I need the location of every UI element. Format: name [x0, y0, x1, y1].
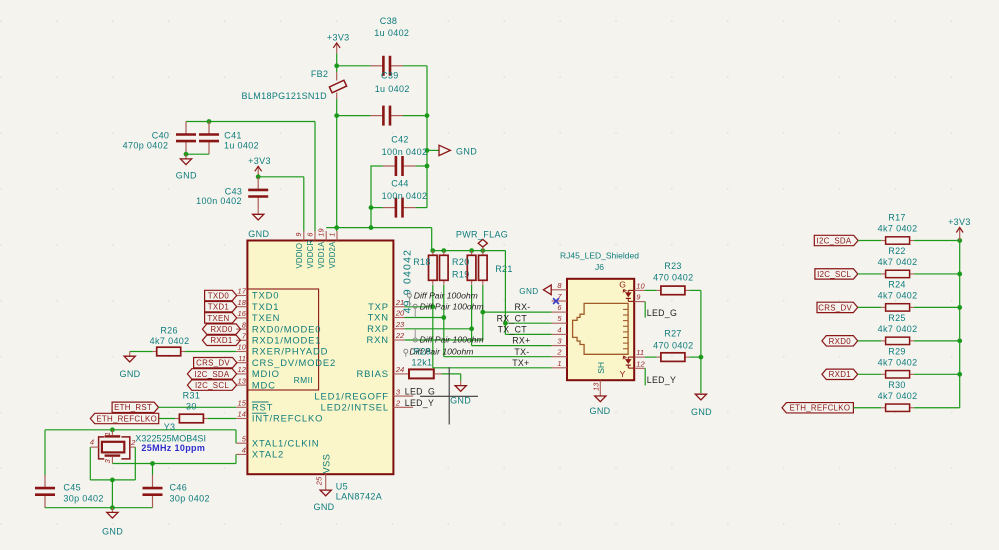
junction — [957, 238, 962, 243]
pin 12 J6 — [634, 359, 645, 368]
svg-text:R24: R24 — [888, 279, 906, 289]
pin 22 RXN — [367, 331, 406, 345]
svg-text:TXP: TXP — [368, 301, 389, 312]
pin 7 RXD1/MODE1 — [236, 332, 321, 346]
wire +3V3 rail (right) — [959, 241, 961, 408]
svg-text:MDC: MDC — [252, 379, 276, 390]
junction — [184, 152, 189, 157]
svg-text:CRS_DV/MODE2: CRS_DV/MODE2 — [252, 357, 336, 368]
svg-text:R31: R31 — [183, 391, 201, 401]
wire I2C_SCL to R22 — [858, 273, 882, 275]
svg-text:4k7 0402: 4k7 0402 — [878, 357, 918, 367]
svg-text:100n 0402: 100n 0402 — [196, 196, 242, 206]
wire TXN to TX- — [405, 285, 552, 357]
pin 2 LED2/INTSEL — [321, 399, 413, 413]
junction — [150, 461, 155, 466]
svg-text:R21: R21 — [495, 264, 513, 274]
wire C42/C44 left vertical — [370, 165, 372, 227]
svg-text:RXP: RXP — [367, 323, 389, 334]
svg-text:I2C_SDA: I2C_SDA — [195, 370, 230, 379]
resistor R22 — [878, 246, 918, 278]
svg-text:30: 30 — [186, 402, 197, 412]
svg-text:1: 1 — [327, 233, 336, 237]
wire pin 9 LED_G — [644, 302, 646, 318]
netclass Diff Pair 100ohm (3) — [413, 329, 483, 345]
svg-text:30p 0402: 30p 0402 — [63, 493, 103, 503]
svg-text:CRS_DV: CRS_DV — [196, 359, 230, 368]
svg-text:11: 11 — [238, 354, 246, 363]
capacitor C45 — [35, 430, 104, 508]
label I2C_SCL — [187, 380, 236, 390]
svg-text:FB2: FB2 — [311, 69, 329, 79]
svg-text:VSS: VSS — [320, 454, 331, 474]
LED yellow indicator — [623, 356, 634, 368]
U5 reference and value — [336, 481, 382, 501]
junction — [334, 63, 339, 68]
svg-text:VDDIO: VDDIO — [295, 243, 304, 269]
wire C41 bottom to C40 bottom — [186, 153, 209, 155]
capacitor C42 — [371, 135, 427, 177]
svg-text:19: 19 — [317, 228, 326, 237]
wire termination rail — [432, 250, 506, 252]
svg-text:GND: GND — [102, 527, 123, 537]
pin 5 XTAL1/CLKIN — [236, 434, 319, 448]
junction — [441, 315, 446, 320]
wire R27 to ground rail — [689, 356, 701, 358]
connector J6 RJ45_LED_Shielded body — [567, 279, 634, 380]
label I2C_SDA — [187, 369, 236, 379]
svg-text:I2C_SCL: I2C_SCL — [195, 381, 229, 390]
svg-text:RX+: RX+ — [512, 336, 530, 346]
svg-text:GND: GND — [248, 229, 269, 239]
svg-text:C42: C42 — [391, 135, 409, 145]
pin 4 J6 — [552, 325, 567, 334]
junction — [957, 338, 962, 343]
svg-text:1u 0402: 1u 0402 — [375, 84, 410, 94]
svg-text:16: 16 — [238, 309, 247, 318]
junction — [110, 427, 115, 432]
label I2C_SCL (pull-up row) — [815, 269, 858, 279]
svg-text:LED1/REGOFF: LED1/REGOFF — [314, 390, 388, 401]
wire I2C_SDA to R17 — [858, 240, 881, 242]
svg-text:4k7 0402: 4k7 0402 — [878, 257, 918, 267]
svg-text:I2C_SCL: I2C_SCL — [817, 270, 851, 279]
op-amp U5 LAN8742A body — [247, 241, 393, 475]
label TX+ — [512, 358, 529, 368]
J6 reference and value — [560, 251, 639, 272]
netclass Diff Pair 100ohm (2) — [413, 302, 483, 318]
label LED_Y (J6) — [647, 375, 676, 385]
svg-text:R28: R28 — [414, 346, 432, 356]
svg-text:R22: R22 — [888, 246, 906, 256]
svg-text:18: 18 — [238, 298, 247, 307]
svg-text:25MHz 10ppm: 25MHz 10ppm — [141, 443, 205, 453]
pin 7 J6 — [552, 292, 567, 301]
wire ground rail — [45, 507, 153, 509]
svg-text:23: 23 — [395, 320, 405, 329]
svg-text:+3V3: +3V3 — [248, 156, 271, 166]
wire R17 to +3V3 rail — [914, 240, 960, 242]
junction — [334, 113, 339, 118]
svg-text:LED_Y: LED_Y — [647, 375, 676, 385]
svg-text:C41: C41 — [224, 130, 242, 140]
svg-text:12k1: 12k1 — [412, 357, 433, 367]
svg-text:RXD0/MODE0: RXD0/MODE0 — [252, 323, 321, 334]
wire R30 to +3V3 rail — [914, 407, 960, 409]
svg-text:470 0402: 470 0402 — [653, 341, 693, 351]
resistor R27 — [653, 329, 693, 362]
wire R22 to +3V3 rail — [914, 273, 960, 275]
pin 8 J6 — [552, 281, 567, 290]
wire ETH_RST to pin 15 — [159, 406, 237, 408]
svg-text:GND: GND — [313, 502, 334, 512]
pin 13 J6 (shield) — [592, 380, 601, 391]
wire RXP to RX+ — [405, 285, 552, 346]
svg-text:2: 2 — [556, 348, 562, 357]
svg-text:15: 15 — [238, 399, 247, 408]
netclass Diff Pair 100ohm (4) — [404, 346, 474, 356]
resistor R18 — [413, 251, 437, 285]
power +3V3 (top) — [327, 33, 350, 54]
svg-text:24: 24 — [395, 365, 404, 374]
wire VDD rail — [326, 227, 432, 229]
junction — [110, 505, 115, 510]
resistor R21 — [479, 251, 513, 285]
wire down to pin 9 — [303, 177, 305, 231]
svg-text:LAN8742A: LAN8742A — [336, 491, 382, 501]
pin 25 VSS — [315, 454, 332, 486]
svg-text:GND: GND — [691, 407, 712, 417]
capacitor C43 — [196, 177, 268, 210]
svg-text:GND: GND — [456, 146, 477, 156]
crystal Y3 — [90, 422, 206, 463]
junction — [110, 478, 115, 483]
svg-text:RXD1: RXD1 — [210, 336, 232, 345]
no-connect pin 7 — [553, 298, 559, 304]
svg-text:RXN: RXN — [367, 334, 389, 345]
svg-text:GND: GND — [119, 369, 140, 379]
pin 17 TXD0 — [236, 287, 279, 301]
resistor R25 — [878, 313, 918, 345]
capacitor C46 — [143, 464, 210, 508]
junction — [469, 248, 474, 253]
svg-text:TXN: TXN — [368, 312, 389, 323]
capacitor C44 — [371, 178, 427, 217]
wire to C38 — [337, 65, 371, 67]
svg-text:+3V3: +3V3 — [948, 217, 971, 227]
svg-text:TXD0: TXD0 — [208, 291, 230, 300]
wire ETH_REFCLKO to R30 — [853, 407, 881, 409]
pin 9 J6 — [634, 293, 645, 302]
svg-text:MDIO: MDIO — [252, 368, 280, 379]
label CRS_DV — [194, 358, 237, 368]
ground at R23/R27 — [691, 394, 712, 417]
svg-text:SH: SH — [596, 362, 606, 374]
label LED_G (J6) — [647, 308, 677, 318]
svg-text:R29: R29 — [888, 346, 906, 356]
label TXD0 — [205, 290, 237, 300]
netclass Diff Pair 100ohm (1) — [407, 291, 477, 307]
svg-text:R30: R30 — [888, 380, 906, 390]
ground at crystal — [102, 508, 123, 537]
svg-text:C39: C39 — [381, 70, 399, 80]
svg-text:4k7 0402: 4k7 0402 — [150, 336, 190, 346]
resistor R17 — [878, 213, 918, 245]
label ETH_RST — [112, 402, 158, 412]
svg-text:12: 12 — [636, 359, 645, 368]
wire XTAL2 bottom — [112, 463, 236, 465]
pin 23 RXP — [367, 320, 405, 334]
svg-text:TXD1: TXD1 — [208, 303, 229, 312]
wire pin 11 to R27 — [645, 356, 657, 358]
pin 21 TXP — [368, 298, 404, 312]
pin 5 J6 — [552, 314, 567, 323]
wire R29 to +3V3 rail — [914, 373, 960, 375]
svg-text:LED2/INTSEL: LED2/INTSEL — [321, 402, 389, 413]
value 49.9 0402 (rotated) — [402, 249, 414, 314]
pin 6 J6 — [552, 303, 567, 312]
junction — [256, 174, 261, 179]
pin 24 RBIAS — [357, 365, 405, 379]
svg-text:J6: J6 — [595, 262, 604, 272]
junction — [957, 305, 962, 310]
pin 3 LED1/REGOFF — [314, 387, 413, 401]
svg-text:TX_CT: TX_CT — [498, 325, 528, 335]
svg-text:R17: R17 — [888, 213, 906, 223]
pin 19 VDD1A — [317, 228, 327, 269]
svg-text:1: 1 — [557, 359, 561, 368]
svg-text:13: 13 — [592, 382, 601, 391]
junction — [430, 248, 435, 253]
svg-text:1u 0402: 1u 0402 — [224, 140, 259, 150]
svg-text:XTAL1/CLKIN: XTAL1/CLKIN — [252, 437, 320, 448]
resistor R20 — [452, 251, 476, 285]
svg-text:C45: C45 — [63, 482, 81, 492]
svg-text:RXD1/MODE1: RXD1/MODE1 — [252, 335, 321, 346]
wire case ground to rail — [111, 480, 113, 508]
svg-text:ETH_RST: ETH_RST — [114, 403, 152, 412]
pin 1 J6 — [552, 359, 567, 368]
svg-text:10: 10 — [636, 281, 645, 290]
label ETH_REFCLKO — [90, 413, 158, 423]
junction — [425, 148, 430, 153]
svg-text:LED_G: LED_G — [405, 387, 435, 397]
capacitor C38 — [370, 16, 409, 76]
svg-text:C43: C43 — [225, 186, 243, 196]
resistor R28 — [405, 346, 442, 378]
svg-text:R25: R25 — [888, 313, 906, 323]
svg-text:R18: R18 — [413, 257, 431, 267]
resistor R23 — [653, 261, 693, 295]
svg-text:22: 22 — [395, 331, 405, 340]
svg-text:VDDCR: VDDCR — [306, 240, 315, 269]
svg-text:Diff Pair 100ohm: Diff Pair 100ohm — [420, 302, 484, 312]
svg-text:1: 1 — [103, 432, 112, 436]
svg-text:RX-: RX- — [514, 302, 530, 312]
svg-text:VDD2A: VDD2A — [328, 241, 337, 269]
svg-text:TXEN: TXEN — [252, 312, 280, 323]
junction — [425, 113, 430, 118]
pin 11 J6 — [634, 348, 645, 357]
wire +3V3 to pin 9 — [258, 176, 304, 178]
capacitor C40 — [123, 121, 196, 154]
svg-text:R26: R26 — [160, 325, 178, 335]
label CRS_DV (pull-up row) — [817, 302, 858, 312]
svg-text:4: 4 — [242, 446, 246, 455]
LED green indicator — [623, 290, 634, 302]
wire crystal case ground U — [90, 447, 135, 480]
label LED_G — [405, 387, 435, 397]
label RX_CT — [497, 313, 528, 323]
svg-text:14: 14 — [238, 410, 246, 419]
svg-text:10: 10 — [238, 343, 247, 352]
svg-text:TX-: TX- — [514, 347, 529, 357]
svg-text:49.9 04042: 49.9 04042 — [402, 249, 414, 314]
svg-text:R27: R27 — [664, 329, 682, 339]
power flag PWR_FLAG — [456, 230, 508, 251]
wire XTAL1 to pin 5 — [235, 430, 237, 443]
label RX+ — [512, 336, 530, 346]
svg-text:GND: GND — [176, 171, 197, 181]
svg-text:4: 4 — [90, 437, 94, 446]
resistor R19 — [440, 251, 470, 285]
svg-text:I2C_SDA: I2C_SDA — [817, 236, 852, 245]
svg-text:100n 0402: 100n 0402 — [382, 191, 428, 201]
svg-text:VDD1A: VDD1A — [317, 241, 326, 269]
svg-text:RXER/PHYADD: RXER/PHYADD — [252, 346, 328, 357]
svg-text:25: 25 — [315, 476, 324, 486]
label TXEN — [205, 313, 237, 323]
svg-text:PWR_FLAG: PWR_FLAG — [456, 230, 508, 240]
junction — [334, 225, 339, 230]
svg-text:C38: C38 — [380, 16, 398, 26]
junction — [480, 248, 485, 253]
label RXD1 (pull-up row) — [822, 369, 858, 379]
pin 11 CRS_DV/MODE2 — [236, 354, 336, 368]
pin 13 MDC — [236, 376, 276, 390]
svg-text:GND: GND — [519, 287, 538, 296]
svg-text:ETH_REFCLKO: ETH_REFCLKO — [96, 414, 157, 423]
svg-text:17: 17 — [238, 287, 247, 296]
pin 8 RXD0/MODE0 — [236, 320, 321, 334]
svg-text:RST: RST — [252, 402, 273, 413]
ground for C43 — [248, 210, 269, 239]
label TXD1 — [205, 302, 237, 312]
svg-text:G: G — [619, 279, 626, 289]
junction — [369, 225, 374, 230]
svg-text:LED_G: LED_G — [647, 308, 677, 318]
svg-text:TX+: TX+ — [512, 358, 529, 368]
ground at R26 — [119, 352, 140, 379]
wire to C39 — [337, 115, 371, 117]
wire GND vertical (C38/C39/C42/C44 right) — [426, 66, 428, 208]
wire +3V3 to FB2 — [336, 53, 338, 65]
svg-text:C40: C40 — [152, 130, 170, 140]
resistor R29 — [878, 346, 918, 378]
pin 15 RST — [236, 399, 273, 413]
junction — [430, 304, 435, 309]
pin 12 MDIO — [236, 365, 280, 379]
pin 10 J6 — [634, 281, 645, 290]
svg-text:4k7 0402: 4k7 0402 — [878, 224, 918, 234]
junction — [207, 119, 212, 124]
junction — [957, 272, 962, 277]
svg-text:Diff Pair 100ohm: Diff Pair 100ohm — [420, 334, 484, 344]
wire VDDCR rail — [186, 121, 315, 123]
label RXD0 — [202, 324, 240, 334]
svg-text:TXEN: TXEN — [207, 314, 229, 323]
wire XTAL1 top — [45, 429, 236, 431]
label I2C_SDA (pull-up row) — [814, 235, 858, 245]
junction — [503, 321, 508, 326]
junction — [369, 205, 374, 210]
wire R24 to +3V3 rail — [914, 306, 960, 308]
pin 14 INT/REFCLKO — [236, 410, 323, 424]
svg-text:4k7 0402: 4k7 0402 — [878, 324, 918, 334]
svg-text:TXD1: TXD1 — [252, 301, 279, 312]
label LED_Y — [405, 398, 434, 408]
wire RXD0 to R25 — [858, 340, 882, 342]
wire C39 right — [403, 115, 427, 117]
svg-text:+3V3: +3V3 — [327, 33, 350, 43]
svg-text:100n 0402: 100n 0402 — [382, 147, 428, 157]
svg-text:Diff Pair 100ohm: Diff Pair 100ohm — [414, 291, 478, 301]
svg-text:INT/REFCLKO: INT/REFCLKO — [252, 413, 323, 424]
svg-text:X322525MOB4SI: X322525MOB4SI — [135, 433, 206, 443]
svg-text:CRS_DV: CRS_DV — [818, 303, 852, 312]
ferrite bead FB2 — [242, 66, 347, 116]
svg-text:ETH_REFCLKO: ETH_REFCLKO — [790, 404, 851, 413]
wire VDD to termination rail — [431, 228, 433, 251]
svg-text:XTAL2: XTAL2 — [252, 449, 284, 460]
junction — [699, 355, 704, 360]
label TX_CT — [498, 325, 528, 335]
resistor R30 — [878, 380, 918, 412]
svg-text:GND: GND — [450, 396, 471, 406]
ground label at pin 8 — [519, 285, 551, 296]
J6 marks G Y SH — [596, 279, 626, 379]
junction — [480, 310, 485, 315]
svg-text:BLM18PG121SN1D: BLM18PG121SN1D — [242, 91, 328, 101]
ground at VSS — [313, 485, 334, 511]
svg-text:1u 0402: 1u 0402 — [374, 28, 409, 38]
pin 18 TXD1 — [236, 298, 279, 312]
power +3V3 (VDDIO) — [248, 156, 271, 177]
pin 3 J6 — [552, 337, 567, 346]
label TX- — [514, 347, 529, 357]
svg-text:GND: GND — [589, 406, 610, 416]
svg-text:11: 11 — [636, 348, 644, 357]
capacitor C39 — [370, 70, 409, 125]
wire RBIAS to ground — [442, 374, 461, 381]
svg-text:470 0402: 470 0402 — [653, 273, 693, 283]
ground label (mid) — [427, 145, 477, 156]
svg-text:RXD0: RXD0 — [829, 337, 852, 346]
pin 6 VDDCR — [305, 231, 315, 269]
svg-text:RMII: RMII — [294, 375, 313, 385]
junction — [469, 326, 474, 331]
junction — [957, 372, 962, 377]
wire VDDCR drop to pin 6 — [314, 122, 316, 232]
svg-text:RXD0: RXD0 — [210, 325, 233, 334]
svg-text:C44: C44 — [391, 178, 409, 188]
wire center tap rail — [505, 251, 551, 335]
svg-text:LED_Y: LED_Y — [405, 398, 434, 408]
junction — [441, 248, 446, 253]
ground at pin 13 — [589, 391, 610, 416]
label RXD1 — [202, 335, 240, 345]
wire RXD1 to R29 — [858, 373, 882, 375]
